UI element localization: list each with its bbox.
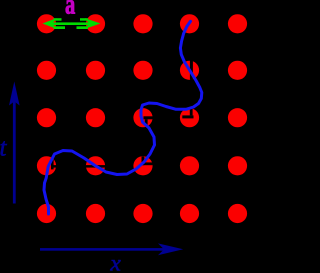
svg-text:a: a (65, 0, 76, 21)
svg-text:x: x (109, 250, 121, 273)
svg-text:t: t (0, 135, 8, 162)
